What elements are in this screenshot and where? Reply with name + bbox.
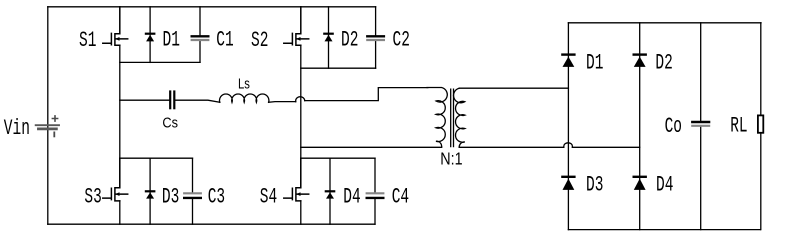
wire cell3 rail xyxy=(120,157,193,159)
left rail xyxy=(47,7,49,224)
diode D2 xyxy=(328,7,330,68)
capacitor C2 xyxy=(375,7,377,68)
wire S1 source / node A column xyxy=(119,45,121,187)
resistor RL box xyxy=(758,115,763,132)
wire cell1 rail xyxy=(120,61,200,63)
diode D1 xyxy=(149,7,151,63)
svg-text:D1: D1 xyxy=(163,27,180,53)
transformer core xyxy=(451,89,454,146)
wire cell4 rail xyxy=(301,157,375,159)
svg-text:Ls: Ls xyxy=(238,75,250,92)
svg-text:S2: S2 xyxy=(251,27,268,53)
transistor S4 xyxy=(284,158,309,201)
battery minus tick xyxy=(53,132,55,136)
svg-text:D1: D1 xyxy=(586,49,603,75)
diode D4 xyxy=(329,158,331,224)
svg-text:S1: S1 xyxy=(79,27,96,53)
transistor S2 xyxy=(284,7,309,46)
wire secondary bottom lead xyxy=(459,146,564,148)
diode D4 output xyxy=(634,176,646,178)
svg-text:D2: D2 xyxy=(341,27,358,53)
battery plate long xyxy=(36,124,59,126)
wire rectifier leg2 xyxy=(639,23,641,230)
battery plate short xyxy=(38,128,56,131)
capacitor C4 xyxy=(374,158,376,224)
wire Ls to hop xyxy=(269,101,296,104)
wire Cs to Ls xyxy=(175,100,220,102)
svg-text:C3: C3 xyxy=(208,183,225,209)
wire secondary bottom to leg2 xyxy=(572,146,639,148)
svg-text:D3: D3 xyxy=(162,183,179,209)
wire S4 source xyxy=(300,201,302,224)
svg-text:Cs: Cs xyxy=(162,115,178,131)
battery plus sign xyxy=(52,116,57,121)
svg-text:D2: D2 xyxy=(655,49,672,75)
wire rectifier top rail xyxy=(568,22,761,24)
capacitor Co leg xyxy=(700,23,702,230)
wire midline left (node A to Cs) xyxy=(120,99,170,101)
svg-text:Vin: Vin xyxy=(4,115,30,141)
diode D3 output xyxy=(562,176,574,178)
diode D3 xyxy=(149,158,151,224)
capacitor Co plates xyxy=(692,121,709,123)
resistor RL leg xyxy=(760,23,762,230)
wire rectifier leg1 xyxy=(567,23,569,230)
transistor S3 xyxy=(103,158,128,201)
diode D2 output xyxy=(634,53,646,55)
bottom rail xyxy=(48,223,375,225)
inductor Ls xyxy=(220,94,269,102)
transformer secondary winding xyxy=(454,88,465,147)
svg-text:RL: RL xyxy=(730,113,747,139)
wire S3 source xyxy=(119,201,121,224)
transistor S1 xyxy=(103,7,128,46)
svg-text:C1: C1 xyxy=(216,27,233,53)
wire S2 source / node B column xyxy=(300,45,302,187)
svg-text:D4: D4 xyxy=(343,183,360,209)
svg-text:C2: C2 xyxy=(393,27,410,53)
svg-text:Co: Co xyxy=(665,113,682,139)
top rail xyxy=(48,6,376,8)
wire cell2 rail xyxy=(301,67,376,69)
svg-text:N:1: N:1 xyxy=(440,150,462,169)
diode D1 output xyxy=(562,53,574,55)
wire secondary top lead xyxy=(459,87,568,89)
wire hop over rectifier left leg xyxy=(564,143,573,148)
svg-text:S3: S3 xyxy=(84,183,101,209)
wire rectifier bottom rail xyxy=(568,229,760,231)
svg-text:S4: S4 xyxy=(260,183,277,209)
capacitor Cs xyxy=(169,92,171,109)
capacitor C1 xyxy=(199,7,201,63)
svg-text:D4: D4 xyxy=(656,171,673,197)
wire hop to corner and up to transformer xyxy=(305,88,428,101)
wire hop over node B column xyxy=(296,97,305,102)
svg-text:D3: D3 xyxy=(586,171,603,197)
capacitor C3 xyxy=(192,158,194,224)
transformer primary winding xyxy=(427,88,447,148)
svg-text:C4: C4 xyxy=(392,183,409,209)
wire primary return xyxy=(301,146,442,148)
